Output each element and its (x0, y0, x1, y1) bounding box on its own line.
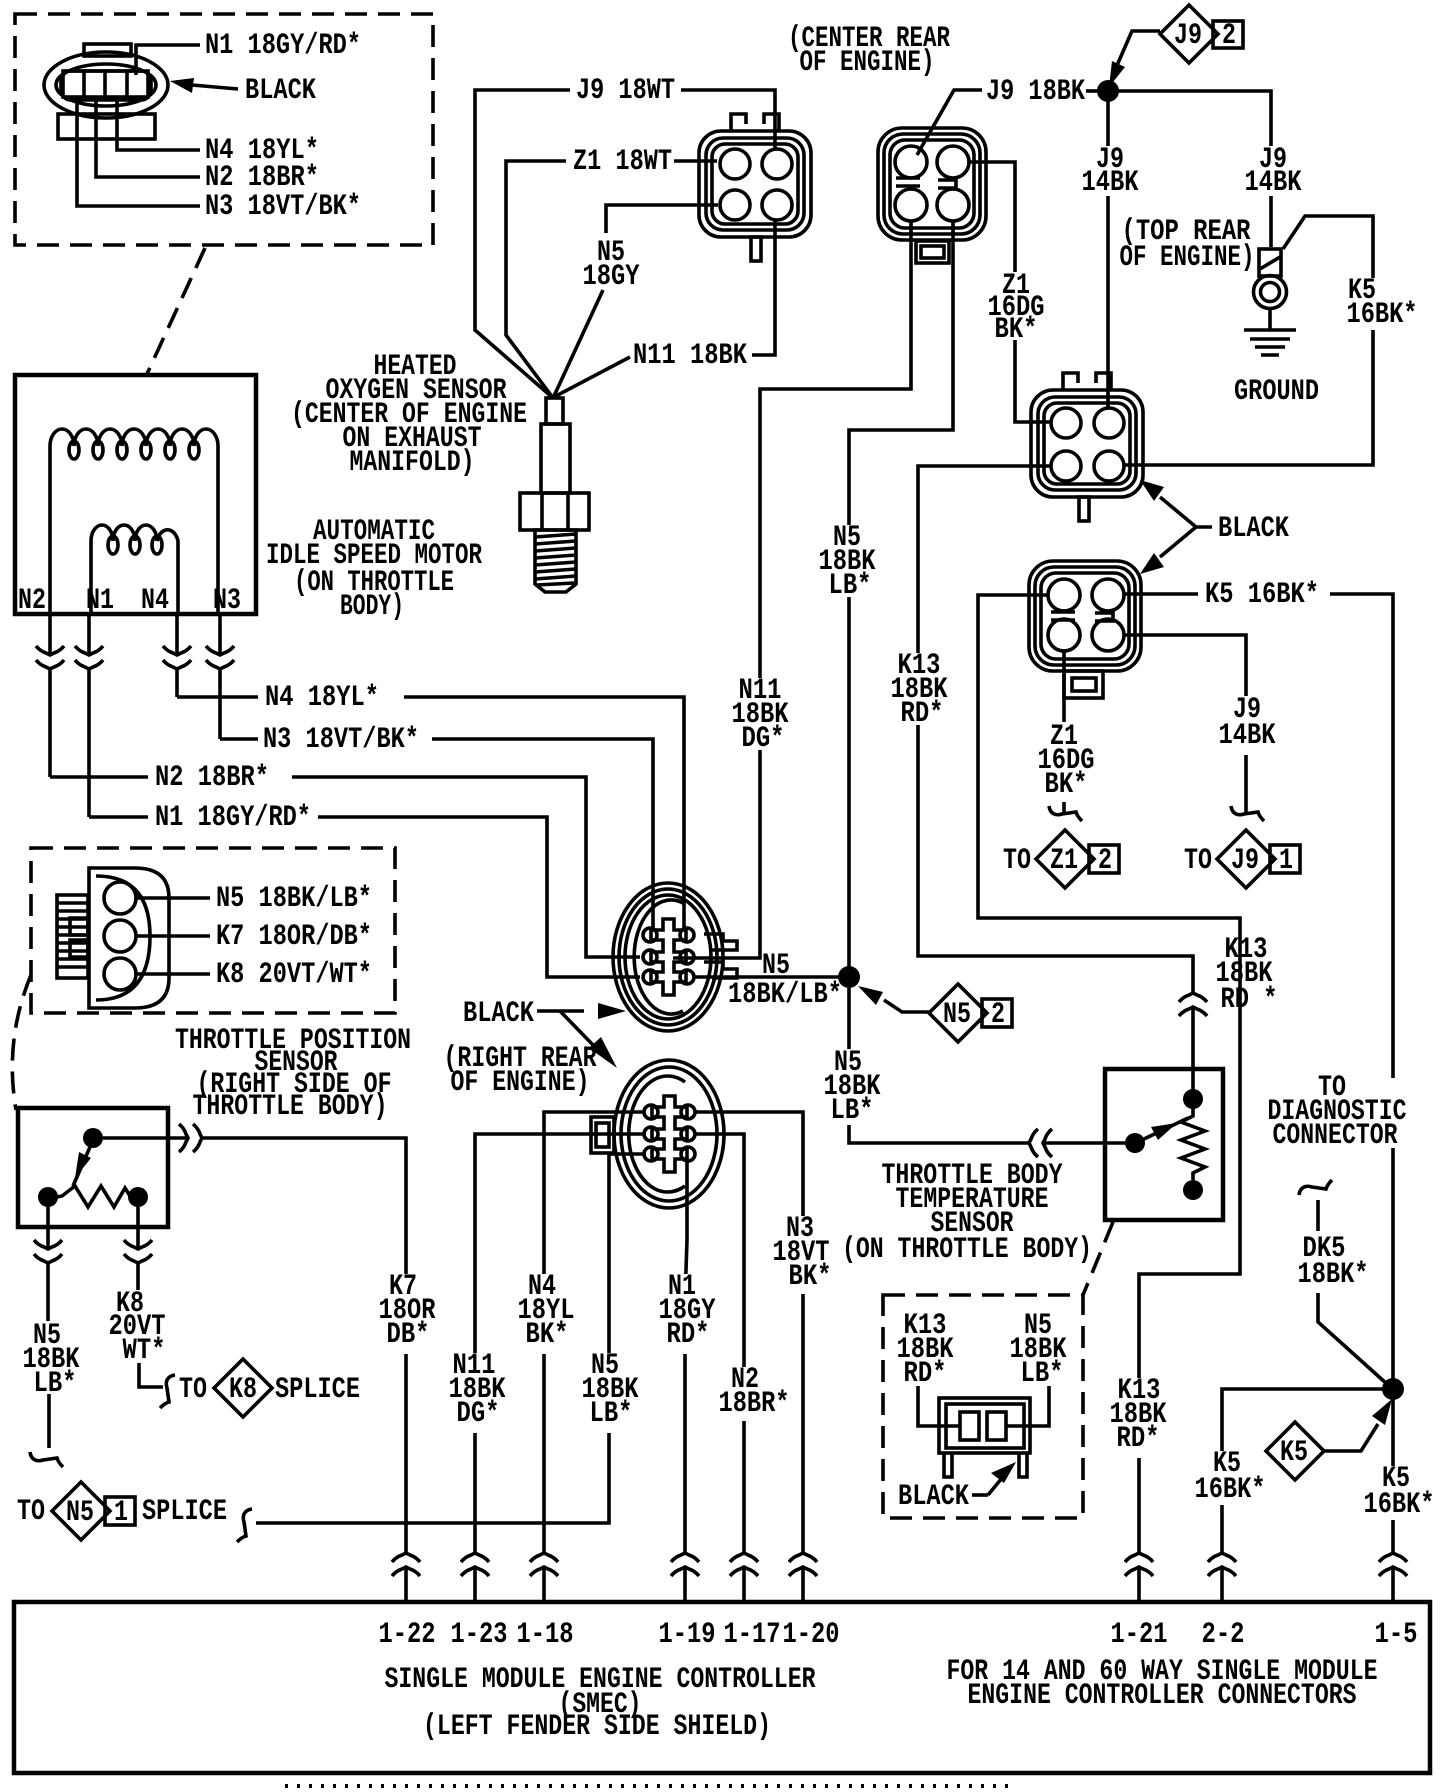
wire K5 16BK* from eyelet to C3 (1125, 216, 1373, 465)
label N11 18BK DG* (SMEC) (446, 1349, 506, 1433)
svg-text:2: 2 (1222, 19, 1236, 53)
connector break on N4 (163, 646, 191, 669)
svg-text:ENGINE CONTROLLER CONNECTORS: ENGINE CONTROLLER CONNECTORS (968, 1679, 1357, 1713)
wire N5 18GY (554, 205, 718, 396)
connector break N4 SMEC (530, 1553, 558, 1576)
wire N2 from O2 to SMEC 1-17 (695, 1134, 744, 1602)
AIS 4-way connector face (44, 44, 168, 139)
label N5 18BK LB* (SMEC) (579, 1349, 639, 1433)
arrow BLACK to TB connector (972, 1493, 988, 1497)
splice hook N5 line (237, 1509, 252, 1542)
svg-text:18BK/LB*: 18BK/LB* (728, 978, 842, 1012)
note TO DIAGNOSTIC CONNECTOR (1263, 1078, 1413, 1148)
svg-text:TO: TO (1003, 844, 1031, 878)
connector break on N2 (36, 646, 64, 669)
ground symbol (1244, 330, 1296, 355)
svg-text:DG*: DG* (742, 722, 785, 756)
svg-text:16BK*: 16BK* (1195, 1473, 1266, 1507)
svg-text:BK*: BK* (526, 1318, 569, 1352)
TPS left terminal (38, 1187, 58, 1207)
wire N5 from junction to temp sensor (849, 988, 1125, 1143)
wire N1 from O2 to SMEC 1-19 (685, 1161, 687, 1602)
wire N5 from O2 to splice line (256, 1154, 644, 1523)
svg-text:Z1 18WT: Z1 18WT (573, 145, 672, 179)
wire J9 14BK left branch down to C3 (1106, 91, 1110, 408)
AIS coil small (91, 525, 178, 613)
svg-text:TO: TO (179, 1373, 207, 1407)
svg-text:2: 2 (991, 998, 1005, 1032)
wire N3 18VT/BK* run to oval connector (220, 739, 653, 928)
wire N2 pin lead (96, 97, 200, 177)
svg-text:K5 16BK*: K5 16BK* (1205, 578, 1319, 612)
svg-text:BODY): BODY) (340, 590, 404, 624)
connector break K13 SMEC (1125, 1553, 1153, 1576)
connector break on N3 (206, 646, 234, 669)
wire N3 from O2 to SMEC 1-20 (695, 1112, 803, 1602)
wire DK5 18BK* (1318, 1200, 1387, 1384)
connector break on N1 (75, 646, 103, 669)
wire N11 from O2 to SMEC 1-23 (475, 1134, 644, 1602)
svg-text:SPLICE: SPLICE (142, 1495, 227, 1529)
svg-text:K5: K5 (1280, 1436, 1308, 1470)
svg-text:1-19: 1-19 (659, 1618, 716, 1652)
TPS potentiometer box (18, 1108, 168, 1227)
svg-text:2-2: 2-2 (1202, 1618, 1245, 1652)
svg-text:J9 18BK: J9 18BK (986, 75, 1085, 109)
svg-text:TO: TO (17, 1495, 45, 1529)
connector break K5 SMEC 1-5 (1379, 1553, 1407, 1576)
wire K8 pin lead (137, 972, 210, 976)
connector break N1 SMEC (671, 1553, 699, 1576)
connector break on K8 (124, 1240, 152, 1263)
wire J9 18BK into junction (1086, 89, 1098, 93)
wire N5 from O1 to junction (694, 975, 846, 979)
svg-text:16BK*: 16BK* (1347, 298, 1418, 332)
temp sensor resistor (1181, 1109, 1205, 1180)
svg-text:14BK: 14BK (1082, 166, 1139, 200)
svg-text:OF ENGINE): OF ENGINE) (800, 46, 935, 80)
svg-text:BK*: BK* (789, 1260, 832, 1294)
svg-text:K8 20VT/WT*: K8 20VT/WT* (216, 958, 372, 992)
wire N4 below AIS (175, 614, 179, 697)
svg-text:DG*: DG* (457, 1397, 500, 1431)
label N11 18BK DG* (731, 674, 791, 756)
label N4 18YL BK* (SMEC) (516, 1270, 575, 1354)
junction node N5 (838, 966, 860, 988)
oval connector O1 (right rear of engine, harness side) (613, 883, 737, 1031)
TPS resistor (57, 1186, 130, 1207)
svg-text:DB*: DB* (387, 1318, 430, 1352)
svg-text:16BK*: 16BK* (1364, 1488, 1435, 1522)
svg-text:LB*: LB* (34, 1367, 77, 1401)
bottom dotted line (285, 1784, 1010, 1788)
wire J9 14BK from C4 to splice (1124, 635, 1246, 812)
splice reference TO Z1 2 (1003, 830, 1119, 888)
TPS 3-way connector face (57, 868, 169, 1008)
label K5 16BK* (top right) (1342, 274, 1420, 332)
splice hook Z1 (1049, 806, 1082, 821)
svg-text:RD*: RD* (667, 1318, 710, 1352)
splice reference J9 2 (top) (1160, 5, 1243, 63)
SMEC box (14, 1602, 1430, 1773)
svg-text:WT*: WT* (123, 1334, 166, 1368)
svg-text:(ON THROTTLE BODY): (ON THROTTLE BODY) (842, 1233, 1092, 1267)
label Z1 16DG BK* (988, 269, 1047, 347)
wire N5 from TPS to splice (48, 1207, 49, 1448)
TB 2-way connector face (918, 1386, 1049, 1477)
svg-text:SPLICE: SPLICE (275, 1373, 360, 1407)
connector break K5 SMEC 2-2 (1208, 1553, 1236, 1576)
svg-text:N2: N2 (18, 584, 46, 618)
svg-text:1: 1 (1279, 844, 1293, 878)
label N2 18BR* (SMEC) (715, 1363, 793, 1421)
svg-text:N4 18YL*: N4 18YL* (265, 681, 379, 715)
svg-text:N2 18BR*: N2 18BR* (155, 761, 269, 795)
svg-text:1-17: 1-17 (724, 1618, 781, 1652)
arrows BLACK to O1 and O2 (537, 1009, 584, 1013)
TPS connector detail dashed box (31, 848, 395, 1013)
wire N1 below AIS (87, 614, 91, 817)
svg-text:N5: N5 (66, 1496, 94, 1530)
connector break N11 SMEC (461, 1553, 489, 1576)
TB temp sensor connector dashed box (883, 1295, 1083, 1518)
svg-text:1-20: 1-20 (783, 1618, 840, 1652)
svg-text:1-22: 1-22 (379, 1618, 436, 1652)
label K13 18BK RD* (over wire) (889, 649, 949, 731)
temp sensor bottom terminal (1183, 1180, 1203, 1200)
dashed leader to AIS motor (147, 248, 205, 374)
wire N11 from C2 to oval (673, 221, 911, 958)
wire N4 pin lead (117, 97, 200, 150)
wire N3 below AIS (218, 614, 222, 739)
svg-text:N3 18VT/BK*: N3 18VT/BK* (205, 190, 361, 224)
svg-text:RD*: RD* (901, 697, 944, 731)
svg-text:LB*: LB* (831, 1094, 874, 1128)
label J9 14BK (right) (1244, 143, 1302, 200)
wire N4 18YL* run to oval connector (177, 697, 684, 928)
splice reference TO J9 1 (1184, 830, 1300, 888)
svg-text:RD *: RD * (1221, 983, 1278, 1017)
oval connector O2 (device side) (591, 1060, 724, 1208)
svg-text:14BK: 14BK (1219, 719, 1276, 753)
connector break N2 SMEC (730, 1553, 758, 1576)
arrow BLACK to connector (192, 85, 238, 89)
label K5 16BK* (1-5) (1360, 1462, 1435, 1522)
label N5 18BK LB* (upper) (818, 521, 878, 603)
arrow from N5 2 to junction (884, 1000, 930, 1012)
connector C4 4-way (1029, 561, 1141, 698)
svg-text:LB*: LB* (829, 569, 872, 603)
wire K5 16BK* branch to SMEC 2-2 (1222, 1389, 1393, 1602)
splice hook K8 (160, 1375, 175, 1408)
svg-text:BLACK: BLACK (1218, 512, 1289, 546)
temp sensor wiper arrow (1144, 1118, 1188, 1139)
wire K5 16BK* from C4 right pin (1124, 594, 1393, 1602)
label N1 18GY RD* (SMEC) (656, 1270, 716, 1354)
svg-text:TO: TO (1184, 844, 1212, 878)
svg-text:1-21: 1-21 (1111, 1618, 1168, 1652)
wire K13 from C4 to SMEC 1-21 (978, 595, 1240, 1602)
temp sensor left terminal (1125, 1133, 1145, 1153)
label K13 18BK RD * (right) (1212, 933, 1278, 1017)
connector break K7 SMEC (392, 1553, 420, 1576)
svg-text:CONNECTOR: CONNECTOR (1273, 1119, 1398, 1153)
wire K7 from wiper to SMEC 1-22 (103, 1138, 406, 1602)
wire J9 18WT (475, 90, 775, 398)
svg-text:J9: J9 (1231, 844, 1259, 878)
svg-text:1-18: 1-18 (517, 1618, 574, 1652)
TPS wiper terminal (83, 1128, 103, 1148)
wire N4 from O2 to SMEC 1-18 (544, 1112, 644, 1602)
svg-text:N3 18VT/BK*: N3 18VT/BK* (263, 723, 419, 757)
splice reference K5 (1266, 1422, 1324, 1480)
svg-text:LB*: LB* (590, 1397, 633, 1431)
connector break on N5 (1029, 1129, 1052, 1157)
svg-text:N5 18BK/LB*: N5 18BK/LB* (216, 882, 372, 916)
wire Z1 16DG BK* from C4 to splice (1062, 651, 1066, 812)
svg-text:N1 18GY/RD*: N1 18GY/RD* (155, 801, 311, 835)
TPS right terminal (128, 1187, 148, 1207)
svg-text:BK*: BK* (995, 313, 1038, 347)
svg-text:K7 18OR/DB*: K7 18OR/DB* (216, 920, 372, 954)
wire K13 from C3 to temp sensor (918, 466, 1193, 1090)
label K5 16BK* (2-2) (1193, 1447, 1267, 1507)
svg-text:BLACK: BLACK (463, 997, 534, 1031)
wire Z1 16DG BK* from C2 to C3 (969, 162, 1050, 422)
svg-text:N1: N1 (86, 584, 114, 618)
wire Z1 18WT (506, 161, 717, 398)
svg-text:18BR*: 18BR* (719, 1387, 790, 1421)
svg-text:18GY: 18GY (583, 260, 640, 294)
splice reference TO K8 SPLICE (179, 1359, 360, 1417)
connector break on N5 TPS (34, 1240, 62, 1263)
AIS coil large (50, 429, 218, 613)
svg-text:(LEFT FENDER SIDE SHIELD): (LEFT FENDER SIDE SHIELD) (423, 1710, 771, 1744)
wire N2 18BR* run to oval connector (50, 777, 640, 957)
wire J9 14BK right branch to ground eyelet (1108, 91, 1271, 247)
svg-text:RD*: RD* (1117, 1422, 1160, 1456)
svg-text:J9 18WT: J9 18WT (576, 74, 675, 108)
arrows BLACK to C3 and C4 (1160, 497, 1212, 527)
wire K7 pin lead (137, 934, 210, 938)
svg-text:J9: J9 (1174, 19, 1202, 53)
connector break on K7 (179, 1124, 202, 1152)
arrow from K5 to junction (1324, 1424, 1378, 1451)
svg-text:THROTTLE BODY): THROTTLE BODY) (193, 1090, 388, 1124)
svg-text:LB*: LB* (1021, 1357, 1064, 1391)
junction node K5 (1382, 1378, 1404, 1400)
AIS connector detail dashed box (15, 14, 433, 245)
wire K8 from TPS to splice (138, 1207, 163, 1387)
wire N11 18BK (554, 220, 775, 397)
svg-text:BLACK: BLACK (898, 1480, 969, 1514)
svg-text:N3: N3 (213, 584, 241, 618)
label K7 18OR DB* (SMEC) (377, 1270, 436, 1354)
wire N2 below AIS (48, 614, 52, 777)
oxygen sensor body (520, 398, 589, 592)
svg-text:1-23: 1-23 (451, 1618, 508, 1652)
label N5 18BK LB* (mid) (820, 1046, 881, 1128)
wire N1 18GY/RD* run to oval connector (89, 817, 640, 977)
AIS motor box (15, 375, 256, 614)
connector C1 oxygen sensor 4-way (699, 114, 811, 261)
svg-text:14BK: 14BK (1245, 166, 1302, 200)
wire N5 pin lead (137, 896, 210, 900)
svg-text:BK*: BK* (1045, 768, 1088, 802)
svg-text:1: 1 (114, 1496, 128, 1530)
svg-text:N1 18GY/RD*: N1 18GY/RD* (205, 29, 361, 63)
splice reference TO N5 1 SPLICE (17, 1482, 227, 1540)
svg-text:Z1: Z1 (1050, 844, 1078, 878)
wire J9 18BK leader from C2 (917, 90, 982, 155)
svg-text:GROUND: GROUND (1234, 375, 1319, 409)
svg-text:N5: N5 (943, 998, 971, 1032)
label N3 18VT BK* (SMEC) (766, 1212, 836, 1294)
svg-text:BLACK: BLACK (245, 74, 316, 108)
label K13 18BK RD* (SMEC) (1108, 1374, 1170, 1458)
splice hook N5 TPS (30, 1452, 63, 1467)
TPS wiper arrow (73, 1147, 90, 1186)
splice reference N5 2 (929, 984, 1012, 1042)
dashed leader to TB connector box (1083, 1222, 1113, 1295)
svg-text:RD*: RD* (904, 1357, 947, 1391)
temp sensor top terminal (1183, 1089, 1203, 1109)
svg-text:N11 18BK: N11 18BK (633, 339, 747, 373)
svg-text:MANIFOLD): MANIFOLD) (350, 446, 475, 480)
dashed leader to TPS (12, 975, 31, 1110)
svg-text:1-5: 1-5 (1375, 1618, 1418, 1652)
arrow from J9 2 to junction (1115, 31, 1160, 70)
splice hook DK5 (1299, 1180, 1332, 1195)
connector C3 4-way (1031, 373, 1143, 521)
svg-text:OF ENGINE): OF ENGINE) (1120, 241, 1255, 275)
connector break N3 SMEC (789, 1553, 817, 1576)
svg-text:2: 2 (1098, 844, 1112, 878)
junction node J9 (1097, 80, 1119, 102)
wire N5 from C2 to junction (849, 221, 953, 972)
svg-text:N4: N4 (141, 584, 169, 618)
throttle body temp sensor box (1105, 1069, 1223, 1220)
svg-text:OF ENGINE): OF ENGINE) (451, 1066, 590, 1100)
splice hook J9 (1231, 806, 1264, 821)
svg-text:18BK*: 18BK* (1298, 1258, 1369, 1292)
connector break on K13 (1179, 993, 1207, 1016)
ground eyelet terminal (1254, 249, 1287, 330)
wire N1 pin lead (136, 45, 200, 75)
wire N3 pin lead (77, 97, 200, 206)
label J9 14BK (left) (1080, 143, 1139, 200)
svg-text:K8: K8 (229, 1373, 257, 1407)
connector C2 oxygen sensor harness 4-way (878, 128, 986, 263)
